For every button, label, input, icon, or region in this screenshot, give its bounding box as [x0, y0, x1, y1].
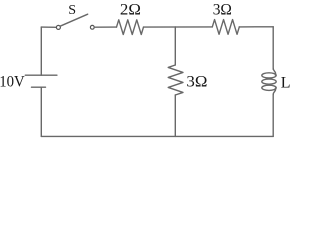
wire middle branch top (node junction): [174, 27, 176, 65]
wire battery bottom lead: [40, 87, 42, 136]
svg-text:10V: 10V: [0, 74, 25, 91]
switch S terminal circle right: [90, 25, 94, 29]
svg-text:S: S: [68, 3, 76, 18]
inductor L loop 3: [262, 85, 276, 90]
inductor L loop 2: [262, 79, 276, 84]
wire bottom rail: [41, 135, 273, 137]
switch S blade: [60, 14, 88, 26]
resistor R 3ohm top zigzag: [212, 20, 239, 35]
wire top-left to switch: [41, 26, 56, 28]
wire inductor bottom lead: [272, 95, 274, 137]
svg-text:2Ω: 2Ω: [120, 2, 141, 19]
battery 10V short plate: [32, 86, 46, 88]
inductor L top hook: [273, 69, 275, 75]
wire middle branch bottom: [174, 95, 176, 136]
wire switch to resistor 2ohm: [94, 26, 116, 28]
wire top middle (node A): [144, 26, 213, 28]
wire right vertical to inductor: [272, 27, 274, 69]
svg-text:L: L: [281, 75, 291, 92]
svg-text:3Ω: 3Ω: [186, 74, 207, 91]
switch S terminal circle left: [56, 25, 60, 29]
svg-text:3Ω: 3Ω: [213, 2, 232, 19]
wire top right: [239, 26, 273, 28]
inductor L loop 1: [262, 73, 276, 78]
resistor R 2ohm zigzag: [117, 20, 144, 35]
wire left vertical (battery top lead): [40, 27, 42, 75]
inductor L bottom hook: [273, 88, 275, 94]
battery 10V long plate: [25, 74, 57, 76]
resistor R 3ohm middle vertical zigzag: [168, 65, 183, 95]
